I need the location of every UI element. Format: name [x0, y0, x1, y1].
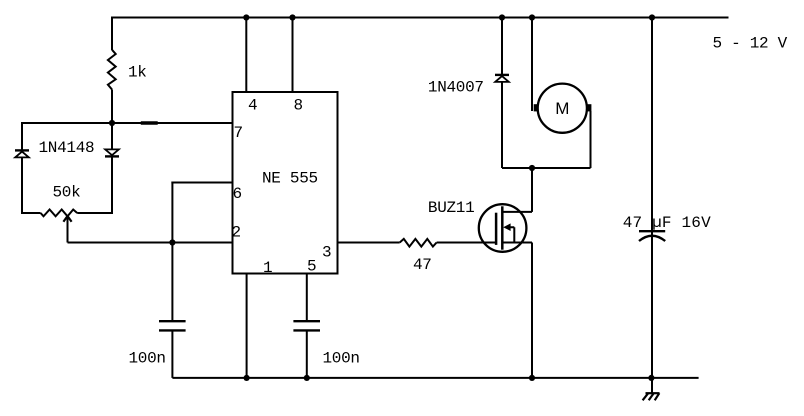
- wire top supply rail: [112, 17, 729, 19]
- diode D3 1N4007 cathode bar: [495, 74, 509, 76]
- transistor Q1 gate bar: [495, 213, 498, 245]
- potentiometer R2 50k track: [41, 210, 78, 217]
- wire pin 5 top lead: [306, 274, 308, 321]
- wire 1k top lead: [111, 17, 113, 51]
- wire horizontal node to pin 7: [22, 122, 233, 124]
- diode D3 triangle: [495, 76, 509, 82]
- svg-text:4: 4: [248, 97, 257, 115]
- svg-text:8: 8: [294, 97, 303, 115]
- wire right diode cathode lead: [111, 156, 113, 214]
- node junction rail/source: [529, 375, 535, 381]
- motor M1 right terminal: [587, 104, 592, 111]
- diode D2 1N4148 (right, cathode down): [105, 149, 119, 155]
- wire 1N4007 cathode lead: [501, 17, 503, 75]
- svg-text:7: 7: [234, 124, 243, 142]
- svg-text:47: 47: [413, 256, 432, 274]
- svg-text:NE 555: NE 555: [262, 170, 318, 188]
- svg-text:1N4148: 1N4148: [39, 139, 95, 157]
- svg-text:5: 5: [307, 258, 316, 276]
- diode D1 1N4148 (left, cathode up): [15, 149, 29, 151]
- node junction rail/pin1: [244, 375, 250, 381]
- node junction rail/pin8: [289, 14, 295, 20]
- capacitor C2 100n top plate: [293, 320, 320, 322]
- wire left diode anode lead: [21, 122, 23, 150]
- wire pin 7 thick segment: [141, 121, 158, 124]
- diode D2 cathode bar: [105, 155, 119, 157]
- capacitor C3 47uF curved plate: [639, 236, 665, 241]
- node junction rail/C3: [649, 14, 655, 20]
- node junction rail/motor: [529, 14, 535, 20]
- wire right diode anode lead: [111, 123, 113, 149]
- wire left diode cathode lead: [21, 158, 23, 214]
- capacitor C1 100n bottom plate: [159, 329, 186, 331]
- resistor R3 47: [400, 239, 437, 247]
- node junction rail/C2: [304, 375, 310, 381]
- wire ground stub: [651, 378, 653, 393]
- wire pin 8 to rail: [292, 18, 294, 93]
- svg-text:1: 1: [263, 259, 272, 277]
- svg-text:BUZ11: BUZ11: [428, 199, 475, 217]
- svg-text:1k: 1k: [128, 64, 147, 82]
- svg-text:5 - 12 V: 5 - 12 V: [713, 35, 788, 53]
- node junction rail/pin4: [243, 14, 249, 20]
- wire motor right lead: [590, 111, 592, 168]
- svg-text:M: M: [555, 99, 569, 118]
- wire C1 top lead: [171, 243, 173, 321]
- wire motor left lead: [531, 17, 533, 112]
- wire source to ground rail: [531, 243, 533, 378]
- wire pin 3 to resistor: [338, 242, 400, 244]
- transistor Q1 drain lead: [502, 211, 532, 213]
- wire wiper stem: [67, 216, 69, 242]
- wire pin 1 to ground rail: [246, 274, 248, 378]
- svg-text:100n: 100n: [129, 350, 166, 368]
- svg-text:3: 3: [322, 244, 331, 262]
- wire pin 6 horizontal: [171, 182, 232, 184]
- transistor Q1 body arrow: [510, 227, 515, 242]
- transistor Q1 source lead: [502, 242, 532, 244]
- wire 1N4007 anode lead: [501, 82, 503, 168]
- wire pot right lead: [77, 212, 112, 214]
- svg-text:6: 6: [233, 185, 242, 203]
- capacitor C3 47uF positive plate: [639, 230, 665, 232]
- motor M1 left terminal: [534, 104, 539, 111]
- potentiometer R2 wiper arrow: [63, 216, 71, 222]
- wire drain vertical: [531, 168, 533, 212]
- motor M1 body: [538, 84, 587, 133]
- wire C3 top lead: [651, 17, 653, 232]
- capacitor C2 100n bottom plate: [293, 329, 320, 331]
- svg-text:50k: 50k: [53, 184, 81, 202]
- node junction rail/ground: [648, 375, 654, 381]
- wire pin 4 to rail: [245, 18, 247, 93]
- wire wiper to pin 2: [68, 242, 233, 244]
- transistor Q1 channel bar: [501, 206, 504, 249]
- diode D1 triangle: [15, 152, 29, 158]
- wire flyback horizontal: [502, 167, 591, 169]
- wire C2 bottom lead: [306, 331, 308, 378]
- wire pin 6 vertical: [171, 182, 173, 243]
- svg-text:1N4007: 1N4007: [428, 79, 484, 97]
- transistor Q1 BUZ11 body circle: [479, 204, 527, 252]
- capacitor C1 100n top plate: [159, 320, 186, 322]
- wire 1k bottom lead: [111, 90, 113, 124]
- wire pot left lead: [22, 212, 41, 214]
- svg-text:2: 2: [232, 224, 241, 242]
- op-amp U1 NE555 body: [233, 92, 338, 274]
- svg-text:47 µF 16V: 47 µF 16V: [623, 214, 711, 232]
- wire C1 bottom lead: [171, 331, 173, 378]
- node junction pin2/C1: [169, 239, 175, 245]
- ground symbol: [643, 393, 660, 400]
- resistor R1 1k: [108, 50, 116, 90]
- wire gate lead: [437, 242, 495, 244]
- wire bottom ground rail: [172, 377, 698, 379]
- wire C3 bottom lead: [651, 231, 653, 378]
- node junction 1k/diodes/pin7: [109, 120, 115, 126]
- node junction rail/1N4007: [499, 14, 505, 20]
- svg-text:100n: 100n: [323, 350, 360, 368]
- node junction flyback/drain: [529, 165, 535, 171]
